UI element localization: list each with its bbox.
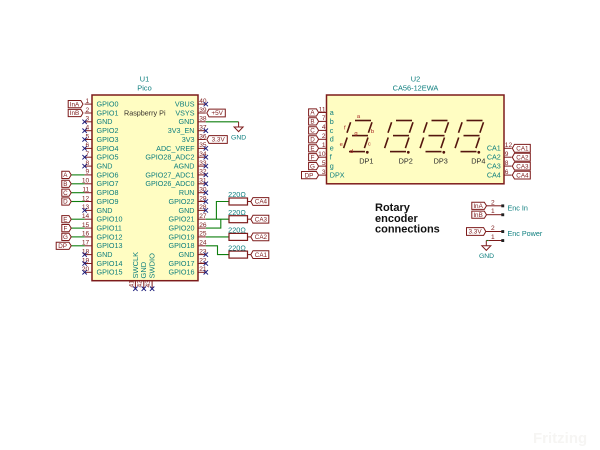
U1 pin 28 (GND) right bbox=[179, 204, 208, 215]
svg-text:GND: GND bbox=[97, 117, 113, 126]
svg-text:41: 41 bbox=[128, 280, 135, 288]
svg-text:2: 2 bbox=[491, 199, 495, 206]
svg-text:39: 39 bbox=[199, 107, 207, 114]
svg-text:CA4: CA4 bbox=[255, 199, 268, 206]
svg-text:g: g bbox=[330, 162, 334, 171]
svg-text:1: 1 bbox=[491, 234, 495, 241]
U1 pin 18 (GND) left bbox=[82, 248, 113, 259]
svg-text:19: 19 bbox=[82, 257, 90, 264]
svg-text:C: C bbox=[63, 190, 68, 197]
7-segment digit 2 bbox=[385, 121, 413, 154]
svg-text:9: 9 bbox=[505, 151, 509, 158]
U1 pin 36 (3V3) right bbox=[182, 133, 207, 144]
U1 pin 27 (GPIO21) right bbox=[169, 213, 207, 224]
U1 pin 29 (GPIO22) right bbox=[169, 195, 208, 206]
U1 pin 11 (GPIO8) left bbox=[82, 187, 118, 198]
net label G bbox=[62, 233, 71, 240]
svg-text:27: 27 bbox=[199, 213, 207, 220]
net label G at U2 bbox=[309, 163, 319, 170]
svg-text:GPIO5: GPIO5 bbox=[97, 153, 119, 162]
svg-text:1: 1 bbox=[322, 142, 326, 149]
svg-text:GND: GND bbox=[179, 117, 195, 126]
svg-text:D: D bbox=[63, 199, 68, 206]
svg-text:GPIO0: GPIO0 bbox=[97, 100, 119, 109]
net label A at U2 bbox=[309, 109, 319, 116]
U1 pin 25 (GPIO19) right bbox=[169, 231, 207, 242]
connector pin 1 Enc Power bbox=[488, 234, 504, 242]
svg-text:f: f bbox=[330, 153, 332, 162]
net label F at U2 bbox=[309, 154, 319, 161]
net label InB at encoder bbox=[472, 211, 487, 218]
U2 pin 6 (CA4) right bbox=[487, 169, 512, 180]
svg-text:GPIO2: GPIO2 bbox=[97, 126, 119, 135]
svg-text:6: 6 bbox=[86, 142, 90, 149]
svg-text:GND: GND bbox=[179, 206, 195, 215]
svg-text:DPX: DPX bbox=[330, 171, 345, 180]
U1 pin 3 (GND) left bbox=[82, 116, 112, 127]
svg-text:CA3: CA3 bbox=[516, 163, 529, 170]
svg-text:GPIO13: GPIO13 bbox=[97, 241, 123, 250]
svg-text:InA: InA bbox=[473, 203, 483, 210]
U1 pin 5 (GPIO3) left bbox=[82, 133, 118, 144]
power label 3.3V bbox=[207, 136, 228, 144]
net label E bbox=[62, 216, 71, 223]
svg-text:Enc In: Enc In bbox=[508, 203, 528, 212]
net label C bbox=[62, 189, 71, 196]
svg-text:ADC_VREF: ADC_VREF bbox=[156, 144, 195, 153]
svg-text:18: 18 bbox=[82, 248, 90, 255]
svg-text:3.3V: 3.3V bbox=[468, 229, 482, 236]
svg-text:25: 25 bbox=[199, 231, 207, 238]
U1 pin 23 (GND) right bbox=[179, 248, 208, 259]
net label D bbox=[62, 198, 71, 205]
svg-text:3: 3 bbox=[322, 169, 326, 176]
net label C at U2 bbox=[309, 127, 319, 134]
U1 pin 8 (GND) left bbox=[82, 160, 112, 171]
svg-text:GND: GND bbox=[179, 250, 195, 259]
U1 pin 20 (GPIO15) left bbox=[82, 266, 123, 277]
svg-text:CA2: CA2 bbox=[487, 153, 501, 162]
svg-text:9: 9 bbox=[86, 169, 90, 176]
U1 pin 16 (GPIO12) left bbox=[82, 231, 123, 242]
svg-text:B: B bbox=[63, 181, 67, 188]
wire C to U1 bbox=[71, 192, 84, 194]
svg-text:6: 6 bbox=[505, 169, 509, 176]
connector pin 2 Enc Power bbox=[486, 225, 504, 233]
net label InA at encoder bbox=[472, 202, 487, 209]
svg-text:43: 43 bbox=[145, 280, 152, 288]
U1 pin 6 (GPIO4) left bbox=[82, 142, 118, 153]
resistor 220R to CA2 bbox=[228, 226, 251, 241]
svg-text:GPIO28_ADC2: GPIO28_ADC2 bbox=[145, 153, 194, 162]
svg-text:g: g bbox=[354, 131, 357, 137]
U1 pin 10 (GPIO7) left bbox=[82, 178, 119, 189]
U1 pin 13 (GND) left bbox=[82, 204, 113, 215]
svg-text:e: e bbox=[330, 144, 334, 153]
U1 pin 34 (GPIO28_ADC2) right bbox=[145, 151, 208, 162]
U2 pin 5 (g) left bbox=[319, 160, 334, 171]
svg-text:GPIO27_ADC1: GPIO27_ADC1 bbox=[145, 170, 194, 179]
wire Enc Power pin1 to GND bbox=[486, 240, 488, 242]
U1 pin 41 (SWCLK) bottom bbox=[128, 252, 140, 291]
net label CA1 at U2 bbox=[512, 144, 530, 152]
U2 pin 12 (CA1) right bbox=[487, 142, 513, 153]
wire U1 GPIO21 to R CA4 bbox=[206, 202, 229, 220]
wire U1 GPIO18 to R CA1 bbox=[206, 246, 229, 255]
svg-text:F: F bbox=[311, 154, 315, 161]
U2 pin 2 (d) left bbox=[319, 133, 334, 144]
svg-text:220Ω: 220Ω bbox=[228, 190, 246, 199]
connector pin 1 Enc In bbox=[487, 208, 505, 216]
U2 pin 8 (CA3) right bbox=[487, 160, 512, 171]
U1 pin 42 (GND) bottom bbox=[137, 261, 149, 291]
svg-text:26: 26 bbox=[199, 222, 207, 229]
U1 pin 7 (GPIO5) left bbox=[82, 151, 118, 162]
U2 pin 4 (c) left bbox=[319, 124, 334, 135]
U1 pin 30 (RUN) right bbox=[179, 187, 208, 198]
svg-text:D: D bbox=[310, 137, 315, 144]
svg-text:CA1: CA1 bbox=[516, 146, 529, 153]
svg-text:DP: DP bbox=[305, 172, 314, 179]
net label B bbox=[62, 180, 71, 187]
U1 pin 35 (ADC_VREF) right bbox=[156, 142, 208, 153]
power label 3.3V at encoder bbox=[467, 228, 486, 236]
U1 pin 21 (GPIO16) right bbox=[169, 266, 208, 277]
svg-text:Pico: Pico bbox=[137, 84, 151, 93]
svg-text:C: C bbox=[310, 128, 315, 135]
svg-text:c: c bbox=[330, 126, 334, 135]
svg-text:d: d bbox=[350, 149, 353, 155]
U2 pin 9 (CA2) right bbox=[487, 151, 512, 162]
svg-text:InB: InB bbox=[473, 212, 482, 219]
svg-text:2: 2 bbox=[491, 225, 495, 232]
svg-text:DP4: DP4 bbox=[471, 157, 485, 166]
wire U1 GPIO19 to R CA2 bbox=[206, 236, 229, 238]
U2 pin 10 (f) left bbox=[318, 151, 332, 162]
svg-text:Raspberry Pi: Raspberry Pi bbox=[124, 108, 166, 117]
net label D at U2 bbox=[309, 136, 319, 143]
net label CA3 at U1 bbox=[251, 215, 269, 223]
svg-text:E: E bbox=[310, 146, 314, 153]
svg-text:DP2: DP2 bbox=[399, 157, 413, 166]
U1 pin 43 (SWDIO) bottom bbox=[145, 253, 157, 291]
svg-text:GPIO6: GPIO6 bbox=[97, 170, 119, 179]
svg-text:U1: U1 bbox=[140, 75, 149, 84]
U1 pin 37 (3V3_EN) right bbox=[168, 125, 208, 136]
svg-text:GPIO18: GPIO18 bbox=[169, 241, 195, 250]
svg-text:a: a bbox=[330, 108, 334, 117]
svg-text:GND: GND bbox=[479, 253, 494, 260]
wire DP to U1 bbox=[71, 245, 84, 247]
svg-text:G: G bbox=[63, 234, 68, 241]
wire E to U1 bbox=[71, 218, 84, 220]
net label InB bbox=[68, 109, 83, 116]
net label CA4 at U2 bbox=[512, 171, 530, 179]
svg-text:8: 8 bbox=[505, 160, 509, 167]
svg-text:GPIO20: GPIO20 bbox=[169, 224, 195, 233]
svg-text:20: 20 bbox=[82, 266, 90, 273]
net label E at U2 bbox=[309, 145, 319, 152]
svg-text:DP1: DP1 bbox=[359, 157, 373, 166]
U2 pin 7 (b) left bbox=[319, 115, 334, 126]
svg-text:CA2: CA2 bbox=[516, 154, 529, 161]
svg-text:DP3: DP3 bbox=[434, 157, 448, 166]
wire G to U1 bbox=[71, 236, 84, 238]
svg-text:SWDIO: SWDIO bbox=[148, 253, 157, 279]
svg-text:GND: GND bbox=[231, 135, 246, 142]
svg-text:B: B bbox=[310, 119, 314, 126]
connector pin 2 Enc In bbox=[487, 199, 505, 207]
wire F to U1 bbox=[71, 227, 84, 229]
net label CA2 at U1 bbox=[251, 233, 269, 241]
U1 pin 15 (GPIO11) left bbox=[82, 222, 122, 233]
U2 pin 3 (DPX) left bbox=[319, 169, 345, 180]
svg-text:3.3V: 3.3V bbox=[212, 137, 226, 144]
svg-text:GPIO9: GPIO9 bbox=[97, 197, 119, 206]
U1 pin 14 (GPIO10) left bbox=[82, 213, 123, 224]
svg-text:GND: GND bbox=[97, 206, 113, 215]
U2 pin 11 (a) left bbox=[319, 106, 334, 117]
svg-text:GPIO7: GPIO7 bbox=[97, 179, 119, 188]
svg-text:CA4: CA4 bbox=[516, 172, 529, 179]
svg-text:220Ω: 220Ω bbox=[228, 226, 246, 235]
svg-text:7: 7 bbox=[86, 151, 90, 158]
svg-text:e: e bbox=[340, 142, 343, 148]
net label CA2 at U2 bbox=[512, 153, 530, 161]
svg-text:1: 1 bbox=[491, 208, 495, 215]
microcontroller U1 body bbox=[92, 95, 198, 281]
net label DP at U2 bbox=[302, 172, 319, 179]
svg-text:5: 5 bbox=[322, 160, 326, 167]
svg-text:GPIO16: GPIO16 bbox=[169, 268, 195, 277]
net label CA4 at U1 bbox=[251, 198, 269, 206]
svg-text:5: 5 bbox=[86, 133, 90, 140]
svg-text:b: b bbox=[330, 117, 334, 126]
svg-text:InA: InA bbox=[70, 101, 80, 108]
svg-text:24: 24 bbox=[199, 240, 207, 247]
svg-text:connections: connections bbox=[375, 224, 440, 236]
svg-text:GPIO8: GPIO8 bbox=[97, 188, 119, 197]
U1 pin 40 (VBUS) right bbox=[175, 98, 208, 109]
U1 pin 12 (GPIO9) left bbox=[82, 195, 119, 206]
svg-text:CA3: CA3 bbox=[487, 162, 501, 171]
net label CA1 at U1 bbox=[251, 251, 269, 259]
svg-text:GPIO11: GPIO11 bbox=[97, 224, 122, 233]
svg-text:GPIO22: GPIO22 bbox=[169, 197, 195, 206]
svg-text:GPIO17: GPIO17 bbox=[169, 259, 195, 268]
svg-text:CA3: CA3 bbox=[255, 216, 268, 223]
7-segment digit 1 bbox=[344, 121, 372, 154]
U1 pin 4 (GPIO2) left bbox=[82, 125, 118, 136]
svg-text:F: F bbox=[63, 225, 67, 232]
U1 pin 19 (GPIO14) left bbox=[82, 257, 123, 268]
U1 pin 17 (GPIO13) left bbox=[82, 240, 123, 251]
svg-text:38: 38 bbox=[199, 116, 207, 123]
svg-text:3V3_EN: 3V3_EN bbox=[168, 126, 195, 135]
svg-text:GPIO12: GPIO12 bbox=[97, 232, 123, 241]
wire A to U1 bbox=[71, 174, 84, 176]
svg-text:b: b bbox=[371, 129, 374, 135]
U1 pin 26 (GPIO20) right bbox=[169, 222, 207, 233]
U1 pin 22 (GPIO17) right bbox=[169, 257, 208, 268]
resistor 220R to CA3 bbox=[228, 208, 251, 223]
resistor 220R to CA1 bbox=[228, 243, 251, 258]
wire B to U1 bbox=[71, 183, 84, 185]
net label A bbox=[62, 171, 71, 178]
svg-text:GPIO10: GPIO10 bbox=[97, 215, 123, 224]
U1 pin 9 (GPIO6) left bbox=[85, 169, 119, 180]
svg-text:2: 2 bbox=[322, 133, 326, 140]
net label B at U2 bbox=[309, 118, 319, 125]
display U2 body bbox=[327, 95, 505, 184]
svg-text:GPIO4: GPIO4 bbox=[97, 144, 119, 153]
U1 pin 38 (GND) right bbox=[179, 116, 207, 127]
svg-text:AGND: AGND bbox=[174, 162, 195, 171]
wire U1 pin38 to GND bbox=[206, 121, 239, 123]
svg-text:GPIO21: GPIO21 bbox=[169, 215, 195, 224]
svg-text:10: 10 bbox=[318, 151, 326, 158]
svg-text:3V3: 3V3 bbox=[182, 135, 195, 144]
wire U1 GPIO20 to R CA3 bbox=[206, 219, 221, 228]
net label F bbox=[62, 225, 71, 232]
segment letter annotations bbox=[340, 114, 375, 155]
U1 pin 24 (GPIO18) right bbox=[169, 240, 207, 251]
svg-text:4: 4 bbox=[322, 124, 326, 131]
power label +5V bbox=[207, 109, 226, 117]
svg-text:36: 36 bbox=[199, 133, 207, 140]
svg-text:12: 12 bbox=[505, 142, 513, 149]
svg-text:42: 42 bbox=[137, 280, 144, 288]
7-segment digit 3 bbox=[420, 121, 448, 154]
ground symbol near U1 bbox=[234, 127, 243, 132]
svg-text:Enc Power: Enc Power bbox=[508, 229, 543, 238]
svg-text:GPIO15: GPIO15 bbox=[97, 268, 123, 277]
svg-text:DP: DP bbox=[58, 243, 67, 250]
svg-text:VSYS: VSYS bbox=[175, 108, 194, 117]
U1 pin 2 (GPIO1) left bbox=[85, 107, 119, 118]
net label CA3 at U2 bbox=[512, 162, 530, 170]
svg-text:GPIO19: GPIO19 bbox=[169, 232, 195, 241]
svg-text:c: c bbox=[368, 141, 371, 147]
svg-text:CA4: CA4 bbox=[487, 171, 501, 180]
svg-text:220Ω: 220Ω bbox=[228, 208, 246, 217]
net label InA bbox=[68, 101, 83, 108]
svg-text:11: 11 bbox=[319, 106, 326, 113]
svg-text:CA2: CA2 bbox=[255, 234, 268, 241]
resistor 220R to CA4 bbox=[228, 190, 251, 205]
svg-text:U2: U2 bbox=[411, 75, 420, 84]
U1 pin 31 (GPIO26_ADC0) right bbox=[145, 178, 208, 189]
U1 pin 39 (VSYS) right bbox=[175, 107, 207, 118]
svg-text:Fritzing: Fritzing bbox=[533, 430, 587, 447]
svg-text:InB: InB bbox=[70, 110, 79, 117]
svg-text:CA56-12EWA: CA56-12EWA bbox=[393, 84, 439, 93]
svg-text:7: 7 bbox=[322, 115, 326, 122]
ground symbol at encoder bbox=[482, 246, 491, 251]
net label DP bbox=[56, 242, 71, 249]
svg-text:CA1: CA1 bbox=[255, 252, 268, 259]
svg-text:RUN: RUN bbox=[179, 188, 195, 197]
svg-text:13: 13 bbox=[82, 204, 90, 211]
U1 pin 32 (GPIO27_ADC1) right bbox=[145, 169, 208, 180]
svg-text:E: E bbox=[63, 216, 67, 223]
U1 pin 1 (GPIO0) left bbox=[85, 98, 119, 109]
svg-text:CA1: CA1 bbox=[487, 144, 501, 153]
svg-text:GPIO3: GPIO3 bbox=[97, 135, 119, 144]
U2 pin 1 (e) left bbox=[319, 142, 334, 153]
7-segment digit 4 bbox=[455, 121, 483, 154]
U1 pin 33 (AGND) right bbox=[174, 160, 208, 171]
svg-text:GPIO1: GPIO1 bbox=[97, 108, 119, 117]
svg-text:4: 4 bbox=[86, 125, 90, 132]
svg-text:+5V: +5V bbox=[211, 110, 223, 117]
svg-text:2: 2 bbox=[86, 107, 90, 114]
svg-text:GPIO14: GPIO14 bbox=[97, 259, 123, 268]
wire D to U1 bbox=[71, 201, 84, 203]
svg-text:GND: GND bbox=[97, 250, 113, 259]
svg-text:G: G bbox=[310, 163, 315, 170]
svg-text:VBUS: VBUS bbox=[175, 100, 195, 109]
svg-text:8: 8 bbox=[86, 160, 90, 167]
svg-text:3: 3 bbox=[86, 116, 90, 123]
svg-text:1: 1 bbox=[86, 98, 90, 105]
svg-text:GND: GND bbox=[97, 162, 113, 171]
svg-text:GPIO26_ADC0: GPIO26_ADC0 bbox=[145, 179, 194, 188]
svg-text:220Ω: 220Ω bbox=[228, 243, 246, 252]
svg-text:d: d bbox=[330, 135, 334, 144]
